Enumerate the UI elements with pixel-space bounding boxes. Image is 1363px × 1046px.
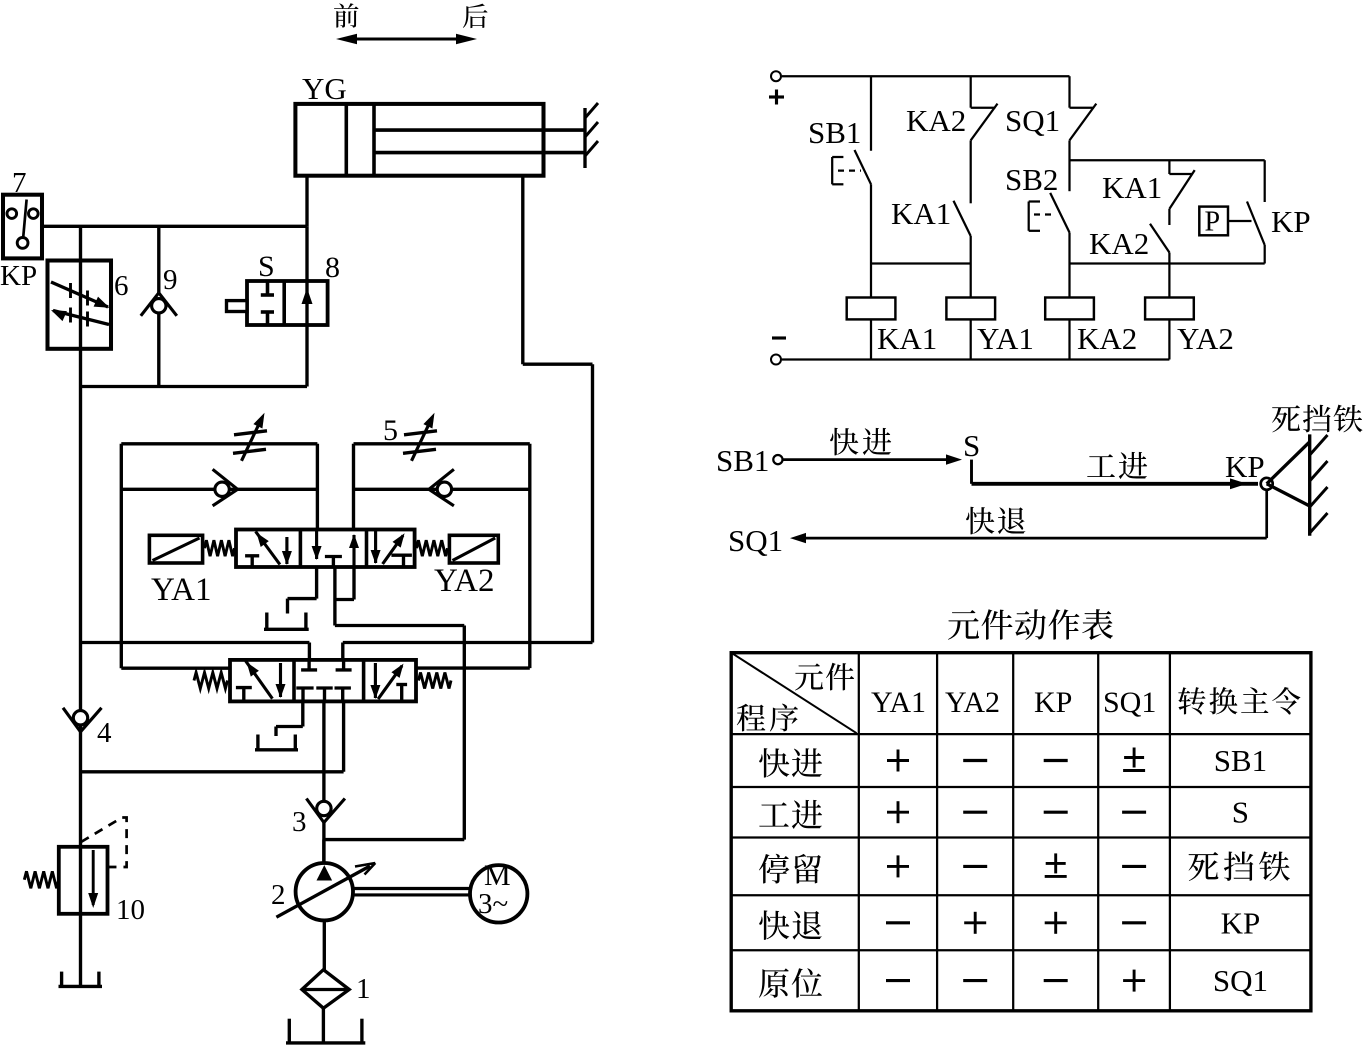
svg-text:S: S xyxy=(963,428,980,463)
svg-text:2: 2 xyxy=(271,879,286,911)
svg-text:KA1: KA1 xyxy=(891,196,951,231)
svg-text:KP: KP xyxy=(1225,449,1265,484)
svg-text:YA2: YA2 xyxy=(434,563,495,599)
svg-text:9: 9 xyxy=(163,264,178,296)
svg-text:5: 5 xyxy=(383,414,398,447)
svg-text:YA2: YA2 xyxy=(945,686,1000,719)
svg-text:SB2: SB2 xyxy=(1005,162,1058,197)
svg-text:S: S xyxy=(258,250,275,283)
svg-text:YA1: YA1 xyxy=(151,572,212,608)
svg-text:KP: KP xyxy=(1221,905,1261,940)
svg-text:YG: YG xyxy=(302,71,347,106)
svg-text:3~: 3~ xyxy=(478,888,508,920)
svg-text:KA1: KA1 xyxy=(1102,170,1162,205)
svg-text:SB1: SB1 xyxy=(1214,743,1267,778)
svg-text:8: 8 xyxy=(325,251,340,284)
svg-text:S: S xyxy=(1232,795,1249,830)
svg-text:SQ1: SQ1 xyxy=(1103,686,1156,719)
svg-text:KA1: KA1 xyxy=(877,321,937,356)
svg-text:KA2: KA2 xyxy=(1077,321,1137,356)
svg-text:3: 3 xyxy=(292,806,307,838)
svg-text:SB1: SB1 xyxy=(808,115,861,150)
svg-text:YA1: YA1 xyxy=(871,686,926,719)
svg-text:KP: KP xyxy=(1034,686,1072,719)
svg-text:1: 1 xyxy=(356,973,371,1005)
svg-text:KA2: KA2 xyxy=(1089,226,1149,261)
svg-text:YA1: YA1 xyxy=(977,321,1034,356)
svg-text:SQ1: SQ1 xyxy=(728,523,783,558)
svg-text:4: 4 xyxy=(97,717,112,749)
svg-text:P: P xyxy=(1205,207,1221,238)
svg-text:6: 6 xyxy=(114,270,129,302)
svg-text:SQ1: SQ1 xyxy=(1213,963,1268,998)
svg-text:SQ1: SQ1 xyxy=(1005,103,1060,138)
svg-text:KP: KP xyxy=(1271,204,1311,239)
svg-text:KP: KP xyxy=(0,260,37,292)
svg-text:YA2: YA2 xyxy=(1177,321,1234,356)
svg-text:10: 10 xyxy=(116,894,145,926)
svg-text:SB1: SB1 xyxy=(716,443,769,478)
svg-text:KA2: KA2 xyxy=(906,103,966,138)
